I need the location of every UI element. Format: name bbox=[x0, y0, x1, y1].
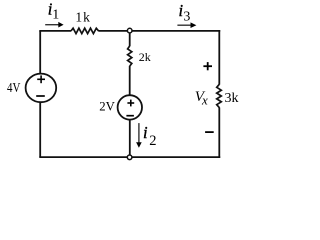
label i1 bbox=[48, 0, 59, 22]
value 4V bbox=[7, 80, 20, 95]
polarity minus of Vx bbox=[205, 131, 214, 133]
svg-text:x: x bbox=[201, 92, 208, 107]
node A (top junction) bbox=[127, 28, 132, 33]
svg-text:2: 2 bbox=[149, 133, 156, 149]
value 2V bbox=[99, 98, 115, 113]
label i2 bbox=[143, 123, 156, 149]
current arrow i3 bbox=[177, 22, 196, 28]
wire right side top bbox=[218, 30, 220, 85]
voltage source V2 2V bbox=[118, 95, 142, 119]
wire middle branch top bbox=[129, 31, 131, 46]
wire left side bbox=[39, 31, 41, 157]
svg-text:2V: 2V bbox=[99, 98, 115, 113]
svg-text:1: 1 bbox=[52, 7, 59, 22]
svg-text:1k: 1k bbox=[75, 9, 91, 24]
resistor R3 3k bbox=[217, 84, 222, 107]
svg-text:2k: 2k bbox=[139, 50, 151, 64]
wire right side bottom bbox=[218, 108, 220, 159]
wire middle branch bottom bbox=[129, 119, 131, 157]
value 1k bbox=[75, 9, 91, 24]
value 2k bbox=[139, 50, 151, 64]
current arrow i2 bbox=[136, 123, 142, 148]
svg-text:3k: 3k bbox=[225, 91, 239, 106]
polarity plus of Vx bbox=[203, 62, 212, 70]
label Vx bbox=[195, 89, 208, 108]
wire top-right segment bbox=[98, 30, 220, 32]
svg-text:3: 3 bbox=[183, 10, 190, 25]
svg-text:i: i bbox=[143, 123, 148, 142]
voltage source V1 4V bbox=[26, 74, 57, 103]
resistor R2 2k bbox=[128, 46, 132, 66]
node B (bottom junction) bbox=[127, 155, 132, 160]
value 3k bbox=[225, 91, 239, 106]
svg-text:4V: 4V bbox=[7, 80, 20, 95]
current arrow i1 bbox=[45, 22, 63, 28]
wire top-left segment bbox=[39, 30, 71, 32]
label i3 bbox=[179, 1, 191, 25]
resistor R1 1k bbox=[71, 28, 99, 33]
wire middle branch middle bbox=[129, 66, 131, 96]
wire bottom side bbox=[39, 156, 220, 158]
